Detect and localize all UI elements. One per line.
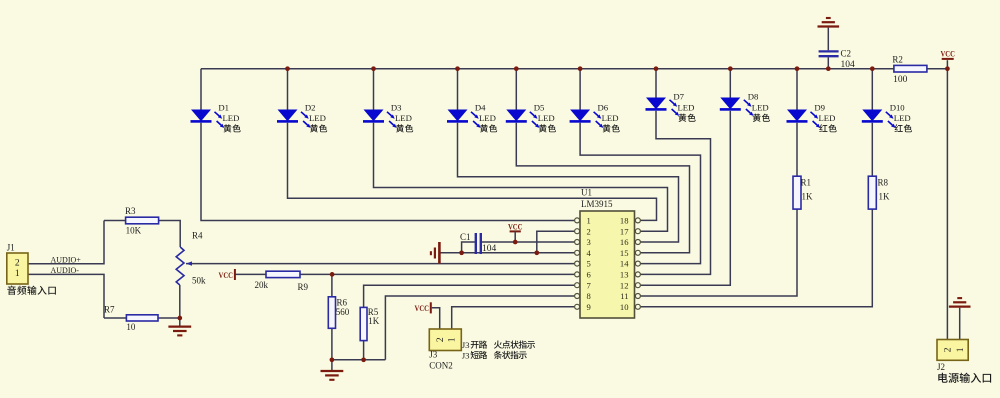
pin 4 xyxy=(575,250,580,255)
wire to R7 left xyxy=(104,317,126,319)
svg-text:16: 16 xyxy=(620,237,629,247)
svg-text:J3: J3 xyxy=(429,350,438,360)
ground below R4 xyxy=(168,325,191,327)
wire R3 to R4 top xyxy=(159,221,181,248)
svg-text:J3: J3 xyxy=(462,340,470,350)
wire D9 top xyxy=(796,69,798,110)
svg-text:9: 9 xyxy=(587,302,591,312)
svg-text:18: 18 xyxy=(620,216,629,226)
svg-text:LED: LED xyxy=(894,113,911,123)
svg-text:LED: LED xyxy=(395,113,412,123)
pin 8 xyxy=(575,294,580,299)
wire D1 top xyxy=(200,69,202,110)
label 黄色 xyxy=(223,124,231,132)
LED D9 xyxy=(787,110,807,122)
wire ground rail xyxy=(332,359,386,361)
svg-text:15: 15 xyxy=(620,248,629,258)
node bus junction x=580.1 xyxy=(578,66,583,71)
svg-text:1K: 1K xyxy=(879,192,891,202)
node bus junction x=457.5 xyxy=(455,66,460,71)
svg-text:7: 7 xyxy=(587,280,592,290)
node bus junction x=947.4 xyxy=(945,66,950,71)
svg-text:LM3915: LM3915 xyxy=(581,199,613,209)
svg-text:D4: D4 xyxy=(475,102,486,112)
LED D3 xyxy=(364,110,384,122)
wire D2 top xyxy=(287,69,289,110)
wire C2 to bus xyxy=(827,57,829,68)
label 黄色 xyxy=(539,124,547,132)
svg-text:R3: R3 xyxy=(125,206,136,216)
svg-text:D9: D9 xyxy=(814,102,825,112)
pin 17 xyxy=(635,229,640,234)
wire C1 left plate down xyxy=(462,242,475,253)
wire C1 to pin 3 xyxy=(482,241,574,243)
svg-text:LED: LED xyxy=(602,113,619,123)
label 黄色 xyxy=(678,114,686,122)
pin 12 xyxy=(635,283,640,288)
pin 14 xyxy=(635,261,640,266)
potentiometer R4 xyxy=(176,247,184,285)
connector J1 xyxy=(7,253,28,284)
wire VCC to R9 xyxy=(235,273,266,275)
svg-text:50k: 50k xyxy=(192,276,206,286)
ground below R6 xyxy=(321,370,344,372)
svg-text:R2: R2 xyxy=(892,55,903,65)
node bus junction x=516.3 xyxy=(514,66,519,71)
svg-text:1: 1 xyxy=(448,337,458,342)
wire R5 to pin 7 xyxy=(364,285,575,307)
label 黄色 xyxy=(396,124,404,132)
svg-text:CON2: CON2 xyxy=(429,361,453,371)
wire ground rail to pin 8 xyxy=(385,296,574,360)
svg-text:D3: D3 xyxy=(391,102,402,112)
VCC symbol at pin 3 xyxy=(510,230,521,232)
svg-text:R1: R1 xyxy=(801,178,812,188)
wire bus R2 to VCC xyxy=(927,68,947,70)
svg-text:VCC: VCC xyxy=(940,48,955,58)
label 黄色 xyxy=(603,124,611,132)
ground at J2 xyxy=(949,305,971,307)
svg-text:AUDIO-: AUDIO- xyxy=(51,266,80,275)
wire VCC to J2 xyxy=(946,69,948,340)
wire D7 top xyxy=(655,69,657,98)
wire D8 top xyxy=(729,69,731,98)
svg-text:8: 8 xyxy=(587,291,591,301)
wire to R3 left xyxy=(104,220,126,222)
svg-text:1: 1 xyxy=(15,269,20,279)
LED D10 xyxy=(862,110,882,122)
svg-text:14: 14 xyxy=(620,259,629,269)
node bus junction x=287.5 xyxy=(285,66,290,71)
svg-text:13: 13 xyxy=(620,270,629,280)
svg-text:R4: R4 xyxy=(192,231,203,241)
pin 6 xyxy=(575,272,580,277)
svg-text:2: 2 xyxy=(587,226,591,236)
wire pin 2 to ground net xyxy=(537,231,574,253)
wire D4 to pin 16 xyxy=(458,123,679,242)
wire AUDIO- to R7 xyxy=(28,274,104,318)
svg-text:1K: 1K xyxy=(802,192,814,202)
wire top power bus xyxy=(201,68,894,70)
wire D4 top xyxy=(457,69,459,110)
pin 9 xyxy=(575,304,580,309)
svg-text:6: 6 xyxy=(587,270,592,280)
wire R7 to junction xyxy=(158,317,180,319)
capacitor C2 xyxy=(819,50,839,52)
svg-text:J2: J2 xyxy=(937,362,945,372)
node bus junction x=373.5 xyxy=(371,66,376,71)
svg-text:10K: 10K xyxy=(126,226,142,236)
svg-text:C2: C2 xyxy=(841,49,852,59)
resistor R3 xyxy=(126,217,159,224)
wire J2 to ground xyxy=(959,308,961,340)
svg-text:LED: LED xyxy=(819,113,836,123)
svg-text:560: 560 xyxy=(336,307,350,317)
node pin2/ground junction xyxy=(534,250,539,255)
svg-text:D2: D2 xyxy=(305,102,316,112)
wire D8 to pin 12 xyxy=(641,111,731,285)
svg-text:12: 12 xyxy=(620,280,629,290)
pin 16 xyxy=(635,240,640,245)
wire D6 to pin 14 xyxy=(580,123,700,264)
svg-text:10: 10 xyxy=(126,322,135,332)
node bus junction x=872.3 xyxy=(870,66,875,71)
ground above C2 xyxy=(818,25,840,27)
svg-text:10: 10 xyxy=(620,302,629,312)
connector J3 xyxy=(429,329,461,351)
wire D9 to R1 xyxy=(796,123,798,176)
svg-text:C1: C1 xyxy=(460,232,471,242)
wire D6 top xyxy=(579,69,581,110)
svg-text:17: 17 xyxy=(620,226,629,236)
svg-text:LED: LED xyxy=(479,113,496,123)
node C1/ground junction xyxy=(459,250,464,255)
svg-text:D6: D6 xyxy=(598,102,609,112)
svg-text:AUDIO+: AUDIO+ xyxy=(51,255,82,264)
svg-text:3: 3 xyxy=(587,237,591,247)
wire D3 top xyxy=(373,69,375,110)
svg-text:LED: LED xyxy=(538,113,555,123)
svg-text:VCC: VCC xyxy=(508,221,523,231)
wire junction to R6 xyxy=(331,274,333,296)
node bus junction x=656 xyxy=(654,66,659,71)
wire junction to ground xyxy=(179,318,181,326)
wire VCC to J3 xyxy=(432,308,440,329)
svg-text:R8: R8 xyxy=(878,178,889,188)
node R5 ground junction xyxy=(361,357,366,362)
pin 7 xyxy=(575,283,580,288)
wire ground to C2 xyxy=(827,28,829,51)
svg-text:D8: D8 xyxy=(748,92,759,102)
label 红色 xyxy=(819,124,827,132)
svg-text:D10: D10 xyxy=(890,102,906,112)
pin 13 xyxy=(635,272,640,277)
svg-text:LED: LED xyxy=(678,102,695,112)
LED D8 xyxy=(720,98,740,110)
node R6 ground junction xyxy=(330,357,335,362)
label 黄色 xyxy=(310,124,318,132)
svg-text:LED: LED xyxy=(752,102,769,112)
svg-text:R7: R7 xyxy=(104,305,115,315)
resistor R7 xyxy=(126,315,158,321)
label 红色 xyxy=(895,124,903,132)
node VCC/pin3 junction xyxy=(513,240,518,245)
LED D2 xyxy=(278,110,298,122)
wire D2 to pin 18 xyxy=(288,123,657,221)
wire R1 to pin 11 xyxy=(641,209,797,296)
wire R6 to ground rail xyxy=(331,328,333,360)
node bus junction x=730.3 xyxy=(728,66,733,71)
wire D10 top xyxy=(871,69,873,110)
wire D5 to pin 15 xyxy=(516,123,689,253)
wire AUDIO+ to R3 xyxy=(28,221,104,264)
svg-text:2: 2 xyxy=(15,258,20,268)
wire ground to pin 4 xyxy=(440,252,574,254)
label 黄色 xyxy=(480,124,488,132)
svg-text:11: 11 xyxy=(620,291,628,301)
wire to ground symbol xyxy=(331,360,333,371)
pin 2 xyxy=(575,229,580,234)
label power input port xyxy=(938,373,947,383)
svg-text:R9: R9 xyxy=(298,282,309,292)
wire D5 top xyxy=(515,69,517,110)
resistor R2 xyxy=(894,65,927,72)
wire D10 to R8 xyxy=(871,123,873,176)
svg-text:104: 104 xyxy=(482,244,497,254)
wire J3 to pin 9 xyxy=(452,307,575,329)
svg-text:4: 4 xyxy=(587,248,592,258)
node bus junction x=797 xyxy=(795,66,800,71)
label 黄色 xyxy=(753,114,761,122)
wire R8 to pin 10 xyxy=(641,209,873,307)
wire R5 bottom xyxy=(363,341,365,360)
node bus junction x=828.3 xyxy=(826,66,831,71)
svg-text:J1: J1 xyxy=(7,243,15,253)
VCC symbol top right xyxy=(942,58,954,60)
connector J2 xyxy=(937,340,968,361)
wire R4 wiper to pin 5 xyxy=(186,263,574,265)
svg-text:LED: LED xyxy=(223,113,240,123)
pin 3 xyxy=(575,240,580,245)
resistor R1 xyxy=(793,176,801,209)
svg-text:R6: R6 xyxy=(337,297,348,307)
VCC symbol at J3 xyxy=(430,302,432,313)
svg-text:J3: J3 xyxy=(462,350,470,360)
LED D1 xyxy=(191,110,211,122)
LED D7 xyxy=(646,98,666,110)
wire D1 to pin 1 xyxy=(201,123,574,221)
svg-text:20k: 20k xyxy=(255,280,269,290)
resistor R6 xyxy=(328,297,335,329)
svg-text:VCC: VCC xyxy=(415,303,430,313)
svg-text:2: 2 xyxy=(436,337,446,342)
node R7/R4 junction xyxy=(177,316,182,321)
ground at C1 (sideways) xyxy=(438,242,441,264)
svg-text:100: 100 xyxy=(893,75,908,85)
capacitor C1 xyxy=(475,233,477,254)
pin 15 xyxy=(635,250,640,255)
wire R4 bottom xyxy=(179,285,181,318)
op-amp U1 LM3915 body xyxy=(580,211,635,318)
LED D4 xyxy=(448,110,468,122)
svg-text:104: 104 xyxy=(841,60,856,70)
resistor R5 xyxy=(360,307,367,340)
wire VCC stem right xyxy=(946,60,948,68)
resistor R8 xyxy=(868,176,876,209)
LED D6 xyxy=(570,110,590,122)
svg-text:LED: LED xyxy=(309,113,326,123)
wire R9 to pin 6 xyxy=(300,273,574,275)
pin 11 xyxy=(635,294,640,299)
svg-text:D5: D5 xyxy=(534,102,545,112)
pin 5 xyxy=(575,261,580,266)
LED D5 xyxy=(506,110,526,122)
svg-text:5: 5 xyxy=(587,259,591,269)
resistor R9 xyxy=(266,271,300,277)
svg-text:2: 2 xyxy=(944,347,954,352)
wire D3 to pin 17 xyxy=(374,123,668,231)
wire D7 to pin 13 xyxy=(641,111,711,275)
svg-text:1: 1 xyxy=(587,216,591,226)
label audio input port xyxy=(7,286,16,295)
svg-text:1: 1 xyxy=(956,347,966,352)
pin 1 xyxy=(575,218,580,223)
svg-text:VCC: VCC xyxy=(219,270,234,280)
svg-text:U1: U1 xyxy=(581,188,592,198)
svg-text:1K: 1K xyxy=(368,316,380,326)
svg-text:D7: D7 xyxy=(673,92,684,102)
VCC symbol at R9 xyxy=(234,269,236,280)
node R9/R6 junction xyxy=(330,272,335,277)
pin 10 xyxy=(635,304,640,309)
svg-text:D1: D1 xyxy=(218,102,229,112)
pin 18 xyxy=(635,218,640,223)
